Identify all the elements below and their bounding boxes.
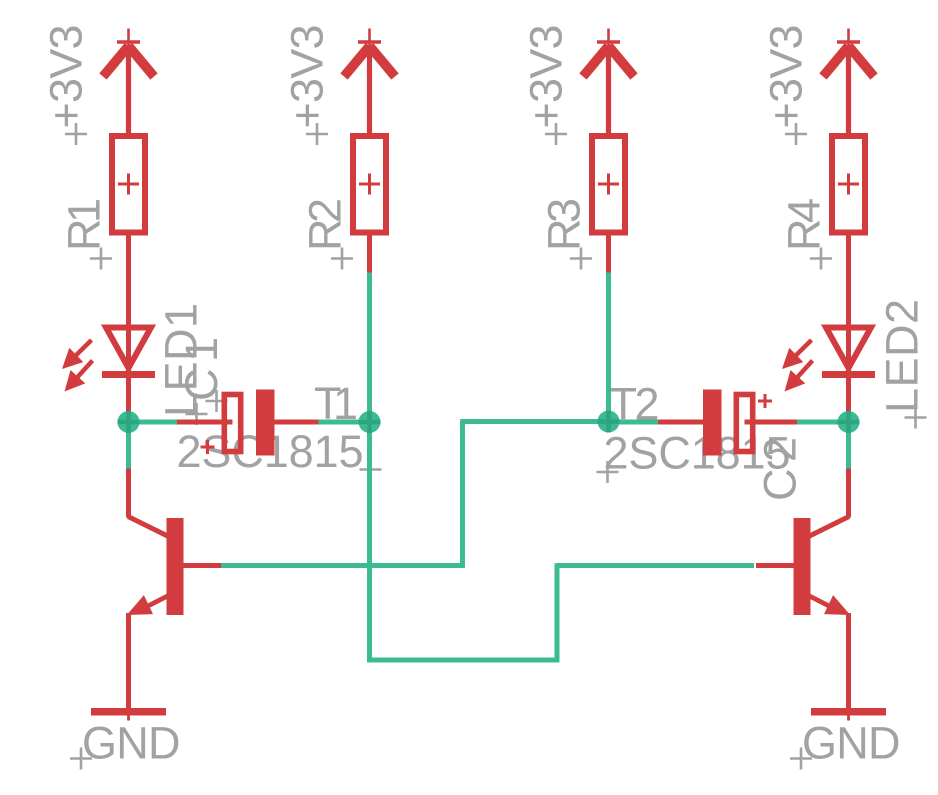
power +3V3 symbol P2	[344, 29, 395, 135]
svg-text:GND: GND	[802, 718, 901, 769]
LED LED1 diode symbol	[102, 328, 155, 379]
resistor R1	[112, 136, 145, 233]
svg-text:+3V3: +3V3	[282, 25, 333, 129]
origin cross LED2	[905, 407, 927, 429]
label +3V3 (P1)	[41, 25, 92, 129]
origin cross +3V3 (P2)	[306, 123, 328, 145]
svg-text:R4: R4	[779, 198, 830, 251]
wire C1- to node B	[319, 420, 370, 425]
value 2SC1815 (T2)	[604, 428, 791, 479]
svg-text:R2: R2	[300, 198, 351, 251]
svg-text:C1: C1	[176, 337, 227, 401]
label +3V3 (P2)	[282, 25, 333, 129]
origin cross R1	[90, 248, 112, 270]
power +3V3 symbol P3	[583, 29, 634, 135]
label R1	[59, 198, 110, 251]
wire LED1 anode/cathode vertical	[126, 235, 131, 421]
capacitor C2 (polarized)	[658, 390, 797, 456]
transistor T2 (NPN 2SC1815)	[756, 468, 850, 711]
origin cross +3V3 (P1)	[65, 123, 87, 145]
svg-text:+3V3: +3V3	[521, 25, 572, 129]
svg-text:2SC1815: 2SC1815	[604, 428, 791, 479]
svg-text:R3: R3	[539, 198, 590, 251]
wire mid vertical up	[555, 563, 560, 662]
wire node B down (coupling to T2 base)	[367, 422, 372, 662]
wire R2 down to node B	[367, 273, 372, 423]
svg-text:+3V3: +3V3	[761, 25, 812, 129]
power +3V3 symbol P1	[103, 29, 154, 135]
wire R3 down to node C	[606, 273, 611, 423]
wire coupling to node C	[460, 419, 608, 424]
power +3V3 symbol P4	[823, 29, 874, 135]
value 2SC1815 (T1)	[177, 426, 364, 477]
svg-text:+3V3: +3V3	[41, 25, 92, 129]
wire across to T2 base	[557, 563, 754, 568]
origin cross T1	[360, 459, 382, 481]
label LED2	[877, 299, 928, 413]
origin cross R2	[331, 248, 353, 270]
label LED1	[156, 303, 207, 417]
label GND (right)	[802, 718, 901, 769]
origin cross GND (left)	[70, 748, 92, 770]
origin cross T2	[597, 461, 619, 483]
wire node D to T2 collector	[846, 422, 851, 469]
LED LED1 emission arrows	[62, 340, 93, 392]
label GND (left)	[82, 718, 181, 769]
ground symbol GND2	[811, 708, 886, 721]
svg-text:LED2: LED2	[877, 299, 928, 413]
svg-text:GND: GND	[82, 718, 181, 769]
label C2	[755, 437, 806, 501]
origin cross +3V3 (P3)	[545, 123, 567, 145]
wire bottom horizontal run	[367, 658, 559, 663]
origin cross +3V3 (P4)	[785, 123, 807, 145]
wire node C to C2 plate	[609, 420, 659, 425]
wire node A to T1 collector	[126, 422, 131, 469]
wire LED2 anode/cathode vertical	[846, 235, 851, 421]
origin cross GND (right)	[790, 748, 812, 770]
resistor R4	[832, 136, 865, 233]
origin cross R3	[570, 248, 592, 270]
resistor R2	[353, 136, 386, 233]
junction node C	[598, 411, 620, 433]
capacitor C1 (polarized)	[177, 390, 319, 456]
origin cross R4	[810, 248, 832, 270]
label C1	[176, 337, 227, 401]
label +3V3 (P4)	[761, 25, 812, 129]
origin cross C1	[206, 390, 228, 412]
label R2	[300, 198, 351, 251]
junction node D	[838, 411, 860, 433]
pin stub R3 bottom	[606, 235, 611, 273]
pin stub R2 bottom	[367, 235, 372, 273]
label R3	[539, 198, 590, 251]
label T1	[314, 378, 358, 429]
wire LED1 node to C1+	[129, 420, 178, 425]
transistor T1 (NPN 2SC1815)	[127, 468, 221, 711]
wire T1 base horizontal	[221, 563, 465, 568]
ground symbol GND1	[91, 708, 166, 721]
LED LED2 diode symbol	[822, 328, 875, 379]
junction node B	[359, 411, 381, 433]
junction node A	[118, 411, 140, 433]
LED LED2 emission arrows	[782, 340, 813, 392]
resistor R3	[592, 136, 625, 233]
origin cross LED1	[186, 403, 208, 425]
label +3V3 (P3)	[521, 25, 572, 129]
wire T1-base coupling vertical	[460, 422, 465, 568]
label R4	[779, 198, 830, 251]
label T2	[610, 379, 660, 430]
wire C2+ to node D	[797, 420, 849, 425]
svg-text:R1: R1	[59, 198, 110, 251]
